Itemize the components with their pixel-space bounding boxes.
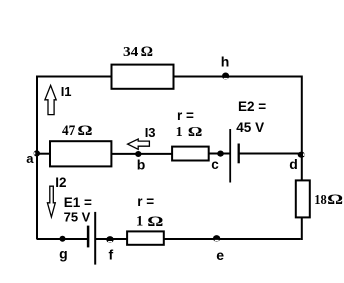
- svg-text:e: e: [216, 247, 224, 263]
- svg-text:Ω: Ω: [327, 192, 343, 208]
- svg-text:1: 1: [136, 213, 143, 229]
- svg-text:47: 47: [62, 123, 75, 139]
- svg-text:75 V: 75 V: [64, 210, 91, 225]
- svg-text:g: g: [59, 245, 68, 261]
- svg-text:h: h: [221, 54, 230, 70]
- svg-text:d: d: [289, 156, 298, 172]
- svg-text:E2 =: E2 =: [238, 99, 266, 114]
- svg-text:I1: I1: [61, 84, 72, 99]
- svg-text:I3: I3: [145, 125, 156, 140]
- svg-text:34: 34: [123, 45, 138, 60]
- svg-text:E1 =: E1 =: [64, 195, 92, 210]
- svg-text:18: 18: [314, 193, 327, 208]
- svg-text:Ω: Ω: [188, 125, 203, 140]
- svg-text:r =: r =: [177, 108, 194, 123]
- svg-text:1: 1: [176, 125, 183, 140]
- svg-text:Ω: Ω: [141, 44, 153, 60]
- svg-text:45 V: 45 V: [236, 120, 264, 135]
- svg-text:a: a: [26, 151, 34, 166]
- svg-text:c: c: [211, 157, 219, 172]
- svg-text:r =: r =: [137, 194, 154, 209]
- svg-text:I2: I2: [55, 175, 66, 190]
- svg-text:Ω: Ω: [77, 123, 92, 139]
- svg-text:Ω: Ω: [147, 214, 163, 230]
- svg-text:f: f: [109, 247, 114, 263]
- svg-text:b: b: [137, 156, 146, 172]
